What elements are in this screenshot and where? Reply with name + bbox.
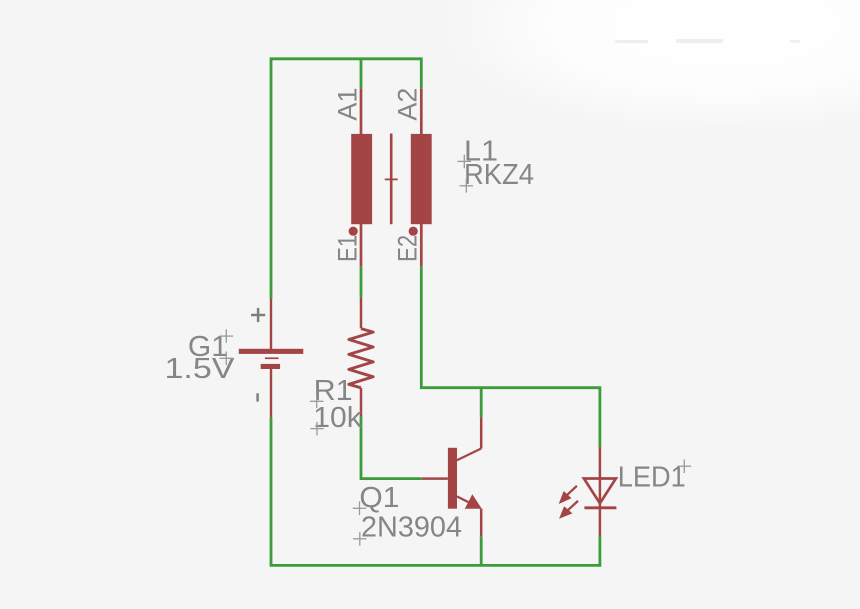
base pin — [422, 477, 448, 480]
wire: emitter to bottom rail — [480, 536, 483, 565]
svg-text:RKZ4: RKZ4 — [464, 159, 534, 191]
LED1 anode pin — [599, 447, 602, 478]
wire: resistor bottom to base — [361, 417, 422, 479]
origin cross 2N3904 — [353, 532, 367, 546]
LED light arrow 1 — [560, 486, 577, 503]
wire: mid rail to collector — [480, 388, 483, 418]
LED1 center line through triangle — [599, 479, 602, 508]
svg-text:E1: E1 — [332, 235, 362, 262]
LED1 cathode bar — [584, 506, 616, 509]
wire: A1 top drop — [360, 59, 363, 89]
pin E1 — [360, 224, 363, 267]
svg-text:2N3904: 2N3904 — [361, 512, 462, 544]
wire: battery minus to bottom rail to LED cathode — [271, 417, 600, 565]
transformer core tick — [385, 178, 398, 180]
origin cross L1 — [458, 155, 472, 169]
emitter diagonal — [457, 496, 480, 508]
transistor Q1 base bar — [448, 448, 457, 509]
polarity dot E1 — [349, 227, 358, 236]
LED1 triangle — [584, 479, 616, 504]
emitter pin — [480, 509, 483, 537]
transformer L1 winding 1 — [351, 134, 372, 224]
transformer core line — [390, 134, 393, 225]
pin A1 — [360, 88, 363, 134]
collector diagonal — [457, 449, 481, 461]
LED1 cathode pin — [599, 508, 602, 537]
collector pin — [480, 417, 483, 448]
svg-text:A1: A1 — [332, 88, 362, 121]
polarity dot E2 — [409, 227, 418, 236]
origin cross 1.5V — [220, 352, 234, 366]
emitter arrow — [465, 494, 482, 509]
svg-text:Q1: Q1 — [359, 482, 399, 514]
resistor R1 — [360, 297, 363, 328]
wire: E2 down, mid rail right, to LED anode — [421, 267, 600, 447]
origin cross 10k — [310, 422, 324, 436]
origin cross LED1 — [678, 459, 692, 473]
origin cross RKZ4 — [460, 179, 474, 193]
transformer L1 winding 2 — [411, 134, 432, 224]
svg-text:LED1: LED1 — [618, 461, 686, 493]
LED light arrow 2 — [560, 501, 578, 518]
battery G1 — [270, 299, 272, 417]
origin cross R1 — [310, 395, 324, 409]
origin cross Q1 — [353, 502, 367, 516]
battery plus mark — [251, 308, 265, 322]
wire: E1 to resistor R1 — [360, 267, 363, 298]
origin cross G1 — [220, 329, 234, 343]
svg-text:A2: A2 — [393, 88, 423, 121]
svg-text:E2: E2 — [393, 235, 423, 262]
pin A2 — [420, 88, 423, 134]
pin E2 — [420, 224, 423, 267]
battery minus mark — [256, 393, 259, 401]
wire: left vertical top (battery + to top rail) — [271, 59, 421, 299]
